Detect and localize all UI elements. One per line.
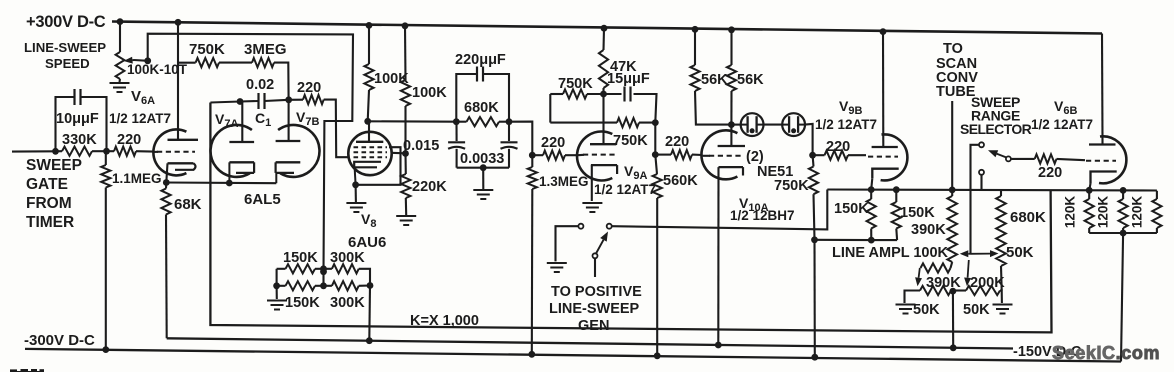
svg-text:1/2 12AT7: 1/2 12AT7 — [594, 182, 656, 197]
svg-text:120K: 120K — [1130, 196, 1145, 229]
svg-text:50K: 50K — [1006, 244, 1034, 261]
svg-text:10μμF: 10μμF — [56, 111, 99, 127]
svg-text:SWEEP: SWEEP — [26, 157, 82, 174]
svg-text:220: 220 — [1038, 165, 1062, 181]
svg-text:150K: 150K — [285, 295, 320, 311]
svg-text:TIMER: TIMER — [26, 214, 74, 231]
svg-text:K=X 1,000: K=X 1,000 — [410, 313, 479, 329]
svg-text:FROM: FROM — [26, 195, 72, 212]
svg-text:TUBE: TUBE — [936, 84, 976, 100]
svg-text:1/2 12AT7: 1/2 12AT7 — [1031, 117, 1093, 132]
svg-text:LINE-SWEEP: LINE-SWEEP — [24, 40, 106, 55]
svg-text:0.02: 0.02 — [246, 77, 274, 93]
svg-text:1.1MEG: 1.1MEG — [112, 171, 162, 186]
svg-text:GEN: GEN — [578, 318, 609, 334]
svg-text:220: 220 — [826, 139, 850, 155]
svg-text:SeekIC.com: SeekIC.com — [1052, 343, 1160, 363]
svg-text:+300V D-C: +300V D-C — [26, 13, 106, 31]
svg-text:150K: 150K — [900, 205, 935, 221]
svg-text:680K: 680K — [1010, 209, 1046, 226]
svg-text:15μμF: 15μμF — [607, 71, 650, 87]
svg-text:300K: 300K — [330, 295, 365, 311]
svg-text:56K: 56K — [737, 72, 764, 88]
svg-text:0.0033: 0.0033 — [460, 151, 504, 167]
svg-text:56K: 56K — [701, 72, 728, 88]
svg-text:SPEED: SPEED — [45, 56, 90, 71]
svg-text:LINE-SWEEP: LINE-SWEEP — [549, 301, 640, 317]
svg-text:220: 220 — [665, 134, 689, 150]
svg-text:3MEG: 3MEG — [244, 41, 287, 58]
svg-text:LINE AMPL 100K: LINE AMPL 100K — [832, 245, 949, 261]
svg-text:TO: TO — [943, 41, 963, 57]
svg-text:-300V D-C: -300V D-C — [24, 332, 95, 349]
svg-text:1.3MEG: 1.3MEG — [539, 174, 589, 189]
svg-text:150K: 150K — [283, 250, 318, 266]
svg-text:220: 220 — [541, 135, 565, 151]
svg-text:TO POSITIVE: TO POSITIVE — [551, 284, 642, 300]
svg-text:750K: 750K — [774, 178, 809, 194]
svg-text:1/2 12AT7: 1/2 12AT7 — [109, 111, 171, 126]
svg-text:(2): (2) — [746, 149, 764, 165]
svg-text:750K: 750K — [613, 133, 648, 149]
svg-text:330K: 330K — [62, 132, 97, 148]
svg-text:1/2 12AT7: 1/2 12AT7 — [815, 117, 877, 132]
svg-text:220μμF: 220μμF — [455, 52, 506, 68]
svg-text:390K: 390K — [911, 222, 946, 238]
svg-text:150K: 150K — [834, 201, 869, 217]
svg-text:680K: 680K — [464, 100, 499, 116]
svg-text:100K: 100K — [412, 85, 447, 101]
svg-text:6AU6: 6AU6 — [348, 234, 386, 251]
svg-text:220: 220 — [297, 80, 321, 96]
svg-text:220K: 220K — [412, 179, 447, 195]
svg-text:68K: 68K — [174, 196, 202, 213]
svg-text:SELECTOR: SELECTOR — [960, 121, 1032, 137]
svg-text:50K: 50K — [913, 302, 940, 318]
svg-text:1/2 12BH7: 1/2 12BH7 — [730, 208, 795, 223]
svg-text:200K: 200K — [970, 275, 1005, 291]
svg-text:0.015: 0.015 — [403, 138, 439, 154]
svg-text:750K: 750K — [558, 76, 593, 92]
svg-text:120K: 120K — [1096, 196, 1111, 229]
svg-text:50K: 50K — [963, 302, 990, 318]
svg-text:220: 220 — [117, 132, 141, 148]
svg-text:6AL5: 6AL5 — [244, 191, 281, 208]
svg-text:560K: 560K — [663, 173, 698, 189]
svg-text:GATE: GATE — [26, 176, 68, 193]
svg-text:750K: 750K — [189, 41, 225, 58]
svg-text:300K: 300K — [330, 250, 365, 266]
svg-text:120K: 120K — [1063, 196, 1078, 229]
